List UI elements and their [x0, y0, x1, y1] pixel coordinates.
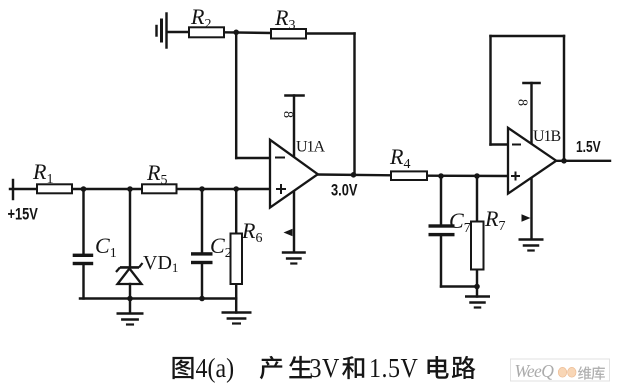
node C2 top junction — [199, 186, 205, 192]
wire input to R1 — [10, 188, 37, 190]
wire C7 to R7 bottom — [441, 285, 477, 287]
label +15V — [8, 206, 39, 224]
ground (below R7) — [465, 297, 490, 308]
ground (U1B V- pin) — [519, 240, 544, 251]
ground (below VD1) — [117, 314, 144, 325]
wire into U1B minus input — [491, 143, 509, 145]
node R1-C1 junction — [81, 186, 87, 192]
wire C7 branch — [440, 176, 442, 224]
resistor R4 — [391, 171, 427, 180]
wire R3 to right corner — [306, 32, 355, 34]
svg-text:3V: 3V — [310, 352, 340, 383]
op-amp U1A — [270, 140, 318, 208]
svg-text:8: 8 — [515, 99, 530, 106]
svg-text:+15V: +15V — [8, 206, 39, 224]
U1A V- pin arrow marker — [284, 229, 293, 237]
wire U1A output — [318, 173, 392, 176]
node VD1 bottom rail junction — [127, 296, 133, 302]
wire junction R2R3 down to minus input — [235, 32, 237, 158]
resistor R1 — [37, 184, 72, 193]
wire VD1 branch — [129, 189, 131, 267]
node R7 top junction — [474, 173, 480, 179]
wire U1B V+ pin — [524, 83, 540, 144]
svg-text:4(a): 4(a) — [196, 352, 235, 383]
node VD1 top junction — [127, 186, 133, 192]
caption 图4(a) 产生3V和1.5V电路 — [172, 352, 475, 383]
wire C1 branch — [82, 189, 84, 254]
resistor R7 — [471, 222, 484, 270]
wire U1A V+ pin — [286, 96, 304, 158]
wire into U1A minus input — [236, 157, 270, 159]
wire R6 branch — [235, 189, 237, 234]
svg-text:3.0V: 3.0V — [331, 182, 358, 200]
svg-text:U1A: U1A — [296, 139, 326, 156]
wire U1B feedback right vertical — [563, 36, 565, 161]
capacitor C1 — [73, 254, 94, 257]
wire U1B feedback left vertical — [489, 36, 491, 145]
U1B V- pin arrow marker — [522, 214, 531, 222]
ground (U1A V- pin) — [282, 253, 306, 264]
node U1A output 3.0V junction — [351, 172, 357, 178]
svg-text:WeeQ: WeeQ — [515, 361, 555, 381]
wire R7 branch — [476, 176, 478, 222]
wire C2 branch — [201, 189, 203, 252]
label 1.5V — [576, 137, 601, 155]
wire R4 to U1B plus input — [427, 174, 508, 177]
svg-text:8: 8 — [280, 111, 295, 118]
wire feedback vertical right (R3 to U1A output) — [353, 34, 355, 175]
node U1B output feedback junction — [561, 158, 567, 164]
wire bottom rail — [80, 297, 236, 299]
wire R2 to R3 — [224, 31, 271, 34]
node C7 top junction — [438, 173, 444, 179]
ground (sideways, left of R2) — [157, 14, 167, 48]
wire U1B output 1.5V — [556, 160, 610, 162]
ground (below R6) — [222, 313, 252, 324]
wire R5 to U1A plus input — [176, 188, 270, 190]
wire U1B V- pin to ground — [530, 177, 532, 239]
svg-text:U1B: U1B — [533, 128, 561, 145]
svg-text:1.5V: 1.5V — [369, 352, 418, 383]
input terminal tick — [12, 180, 14, 199]
capacitor C2 — [191, 252, 213, 255]
svg-text:1.5V: 1.5V — [576, 137, 601, 155]
op-amp U1B — [508, 128, 556, 194]
zener diode VD1 — [116, 263, 143, 284]
capacitor C7 — [429, 224, 455, 227]
resistor R3 — [271, 29, 306, 39]
watermark WeeQoo维库 — [511, 359, 610, 381]
resistor R2 — [189, 27, 224, 37]
wire ground to R2 — [167, 31, 189, 33]
wire R1 to R5 — [72, 188, 142, 190]
resistor R6 — [231, 234, 243, 285]
node R2-R3 junction (to U1A inverting input) — [233, 30, 239, 36]
node R5-R6 junction — [233, 186, 239, 192]
wire U1A V- pin to ground — [293, 190, 295, 252]
wire U1B feedback top — [491, 35, 565, 37]
label 3.0V — [331, 182, 358, 200]
node C2 bottom rail junction — [199, 296, 205, 302]
node R7 bottom junction — [474, 284, 480, 290]
resistor R5 — [142, 184, 177, 193]
